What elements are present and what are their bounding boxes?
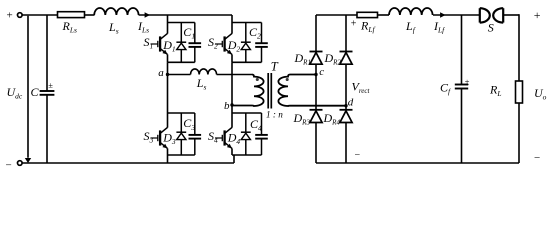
node b	[230, 103, 233, 106]
transistor Q S3	[167, 113, 169, 128]
node a	[166, 73, 169, 76]
wire bottom-left rail	[22, 162, 234, 164]
wire rectifier bottom rail	[316, 162, 519, 164]
capacitor C2	[261, 23, 263, 44]
svg-text:b: b	[224, 100, 230, 112]
diode D1	[180, 23, 182, 43]
transformer secondary polarity dot	[286, 78, 289, 81]
svg-text:±: ±	[465, 77, 470, 87]
transistor Q S1	[167, 23, 169, 34]
transformer T primary winding	[232, 75, 264, 107]
current arrow ILs	[145, 12, 150, 17]
wire node a to Lq	[168, 74, 191, 76]
resistor RLf	[357, 12, 378, 17]
wire collector feed Q S1	[167, 15, 169, 23]
wire Lq to transformer	[217, 74, 252, 76]
svg-text:−: −	[534, 152, 540, 164]
diode D3	[180, 113, 182, 132]
wire collector feed Q S2	[231, 15, 233, 23]
diode DR1	[315, 15, 317, 52]
input - terminal	[18, 161, 23, 166]
voltage arrow Udc (head)	[25, 158, 31, 163]
transformer T secondary winding	[278, 75, 346, 107]
wire rectifier top rail	[316, 14, 357, 16]
transistor Q S2	[231, 23, 233, 34]
wire Ls to bridge	[139, 14, 232, 16]
capacitor C1	[194, 23, 196, 44]
svg-text:+: +	[7, 10, 13, 22]
wire top-left from + terminal to RLs	[22, 14, 57, 16]
wire S3 emitter to rail	[167, 155, 169, 163]
wire node c to DR3	[315, 75, 317, 110]
resistor Rl	[516, 81, 523, 103]
svg-text:C: C	[31, 85, 40, 99]
wire RLs to Ls	[85, 14, 95, 16]
svg-text:S: S	[488, 20, 494, 34]
inductor Ls	[94, 8, 138, 15]
node c	[314, 73, 317, 76]
capacitor Cf top lead	[461, 15, 463, 84]
svg-text:T: T	[271, 60, 279, 74]
diode DR2	[345, 15, 347, 52]
capacitor C4	[261, 113, 263, 135]
transistor Q S4	[231, 113, 233, 128]
svg-text:−: −	[6, 159, 12, 170]
wire cell bottom bus Q S2	[232, 61, 262, 63]
capacitor Cf bottom lead	[461, 89, 463, 163]
svg-text:−: −	[355, 150, 361, 161]
wire cell top bus Q S4	[232, 112, 262, 114]
wire cell bottom bus Q S3	[168, 154, 195, 156]
wire switch to right rail	[503, 14, 519, 16]
wire right rail bottom	[518, 103, 520, 163]
inductor Lq	[191, 69, 217, 75]
svg-text:d: d	[348, 96, 354, 108]
wire riser to S4 cell	[233, 155, 235, 163]
diode D2	[245, 23, 247, 43]
wire RLf to Lf	[378, 14, 390, 16]
svg-text:+: +	[534, 8, 541, 22]
capacitor C (bottom lead)	[46, 95, 48, 163]
wire leg b (S2-S4 midpoint)	[231, 62, 233, 113]
node d	[344, 104, 347, 107]
svg-text:a: a	[158, 67, 164, 79]
svg-text:+: +	[351, 19, 357, 30]
switch S right contact	[502, 8, 504, 22]
transformer core	[267, 73, 269, 109]
capacitor C (top lead)	[46, 15, 48, 91]
current arrow ILf	[440, 12, 445, 17]
diode DR3	[310, 109, 323, 111]
wire Lf to switch	[433, 14, 480, 16]
resistor RLs	[58, 12, 85, 18]
transformer primary polarity dot	[256, 78, 259, 81]
wire cell top bus Q S3	[168, 112, 195, 114]
diode D4	[245, 113, 247, 132]
wire right rail top	[518, 14, 520, 81]
input + terminal	[18, 13, 23, 18]
svg-text:±: ±	[48, 80, 53, 90]
wire cell top bus Q S2	[232, 22, 262, 24]
capacitor C plates	[40, 90, 55, 92]
capacitor C3	[194, 113, 196, 135]
capacitor Cf plates	[455, 84, 468, 86]
wire cell top bus Q S1	[168, 22, 195, 24]
wire cell bottom bus Q S1	[168, 61, 195, 63]
wire cell bottom bus Q S4	[232, 154, 262, 156]
switch S left contact	[479, 8, 481, 22]
voltage arrow Udc (line)	[27, 16, 29, 158]
svg-text:1 : n: 1 : n	[266, 110, 283, 120]
diode DR4	[345, 106, 347, 110]
wire leg a (S1-S3 midpoint)	[167, 62, 169, 113]
inductor Lf	[389, 8, 433, 15]
svg-text:c: c	[319, 66, 324, 78]
